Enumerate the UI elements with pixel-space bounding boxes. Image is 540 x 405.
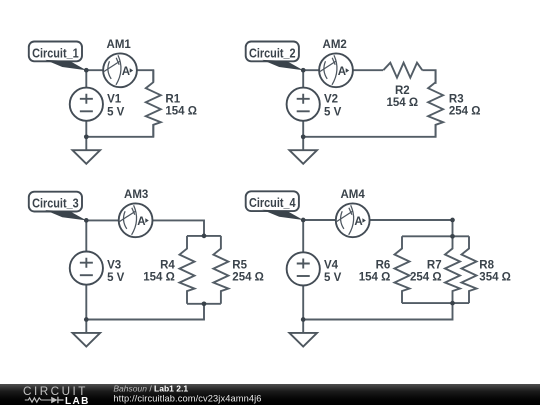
svg-text:5 V: 5 V xyxy=(324,272,342,284)
svg-text:R5: R5 xyxy=(232,259,247,271)
svg-text:254 Ω: 254 Ω xyxy=(449,106,481,118)
svg-text:A: A xyxy=(338,66,346,78)
svg-text:A: A xyxy=(122,66,130,78)
svg-text:Circuit_3: Circuit_3 xyxy=(32,196,79,211)
svg-text:R7: R7 xyxy=(427,259,442,271)
svg-text:V2: V2 xyxy=(324,94,338,106)
svg-text:R8: R8 xyxy=(479,259,494,271)
svg-text:AM3: AM3 xyxy=(124,189,148,201)
svg-text:A: A xyxy=(354,216,362,228)
svg-text:354 Ω: 354 Ω xyxy=(479,272,511,284)
svg-text:254 Ω: 254 Ω xyxy=(410,272,442,284)
svg-text:R4: R4 xyxy=(160,259,175,271)
svg-text:5 V: 5 V xyxy=(107,107,125,119)
svg-text:V4: V4 xyxy=(324,259,339,271)
svg-text:154 Ω: 154 Ω xyxy=(386,97,418,109)
svg-text:Circuit_4: Circuit_4 xyxy=(249,195,296,210)
svg-text:5 V: 5 V xyxy=(324,107,342,119)
svg-text:R3: R3 xyxy=(449,93,464,105)
svg-text:A: A xyxy=(137,216,145,228)
svg-text:http://circuitlab.com/cv23jx4a: http://circuitlab.com/cv23jx4amn4j6 xyxy=(113,393,261,403)
svg-text:AM1: AM1 xyxy=(107,39,132,51)
svg-text:5 V: 5 V xyxy=(107,272,125,284)
svg-text:154 Ω: 154 Ω xyxy=(143,272,175,284)
svg-text:V3: V3 xyxy=(107,259,121,271)
svg-text:Bahsoun / Lab1 2.1: Bahsoun / Lab1 2.1 xyxy=(113,384,188,394)
svg-text:R1: R1 xyxy=(165,93,180,105)
svg-text:AM4: AM4 xyxy=(340,189,365,201)
svg-text:154 Ω: 154 Ω xyxy=(359,272,391,284)
svg-text:AM2: AM2 xyxy=(323,39,347,51)
svg-text:LAB: LAB xyxy=(65,396,90,405)
svg-text:R2: R2 xyxy=(395,85,410,97)
svg-text:R6: R6 xyxy=(376,259,391,271)
svg-text:V1: V1 xyxy=(107,94,122,106)
svg-text:Circuit_1: Circuit_1 xyxy=(32,45,79,60)
svg-text:Circuit_2: Circuit_2 xyxy=(249,45,296,60)
svg-text:154 Ω: 154 Ω xyxy=(165,106,197,118)
svg-text:254 Ω: 254 Ω xyxy=(232,272,264,284)
